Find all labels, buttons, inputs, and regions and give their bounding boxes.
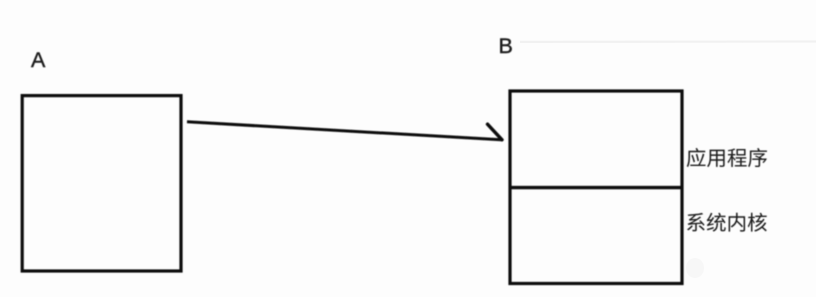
svg-text:B: B [499, 34, 513, 58]
box B outer (process B) [510, 91, 682, 284]
faint scan artifact line right of B [520, 40, 816, 43]
arrow A to B: head barb [488, 124, 503, 140]
label: 系统内核 (system kernel) [687, 213, 767, 232]
arrow A to B: shaft [187, 122, 501, 140]
label: 应用程序 (application programs) [687, 148, 767, 167]
divider between 应用程序 and 系统内核 [510, 186, 682, 189]
svg-text:A: A [31, 48, 46, 72]
box A (process A) [22, 96, 181, 271]
faint scan smudge near box B corner [686, 258, 704, 278]
